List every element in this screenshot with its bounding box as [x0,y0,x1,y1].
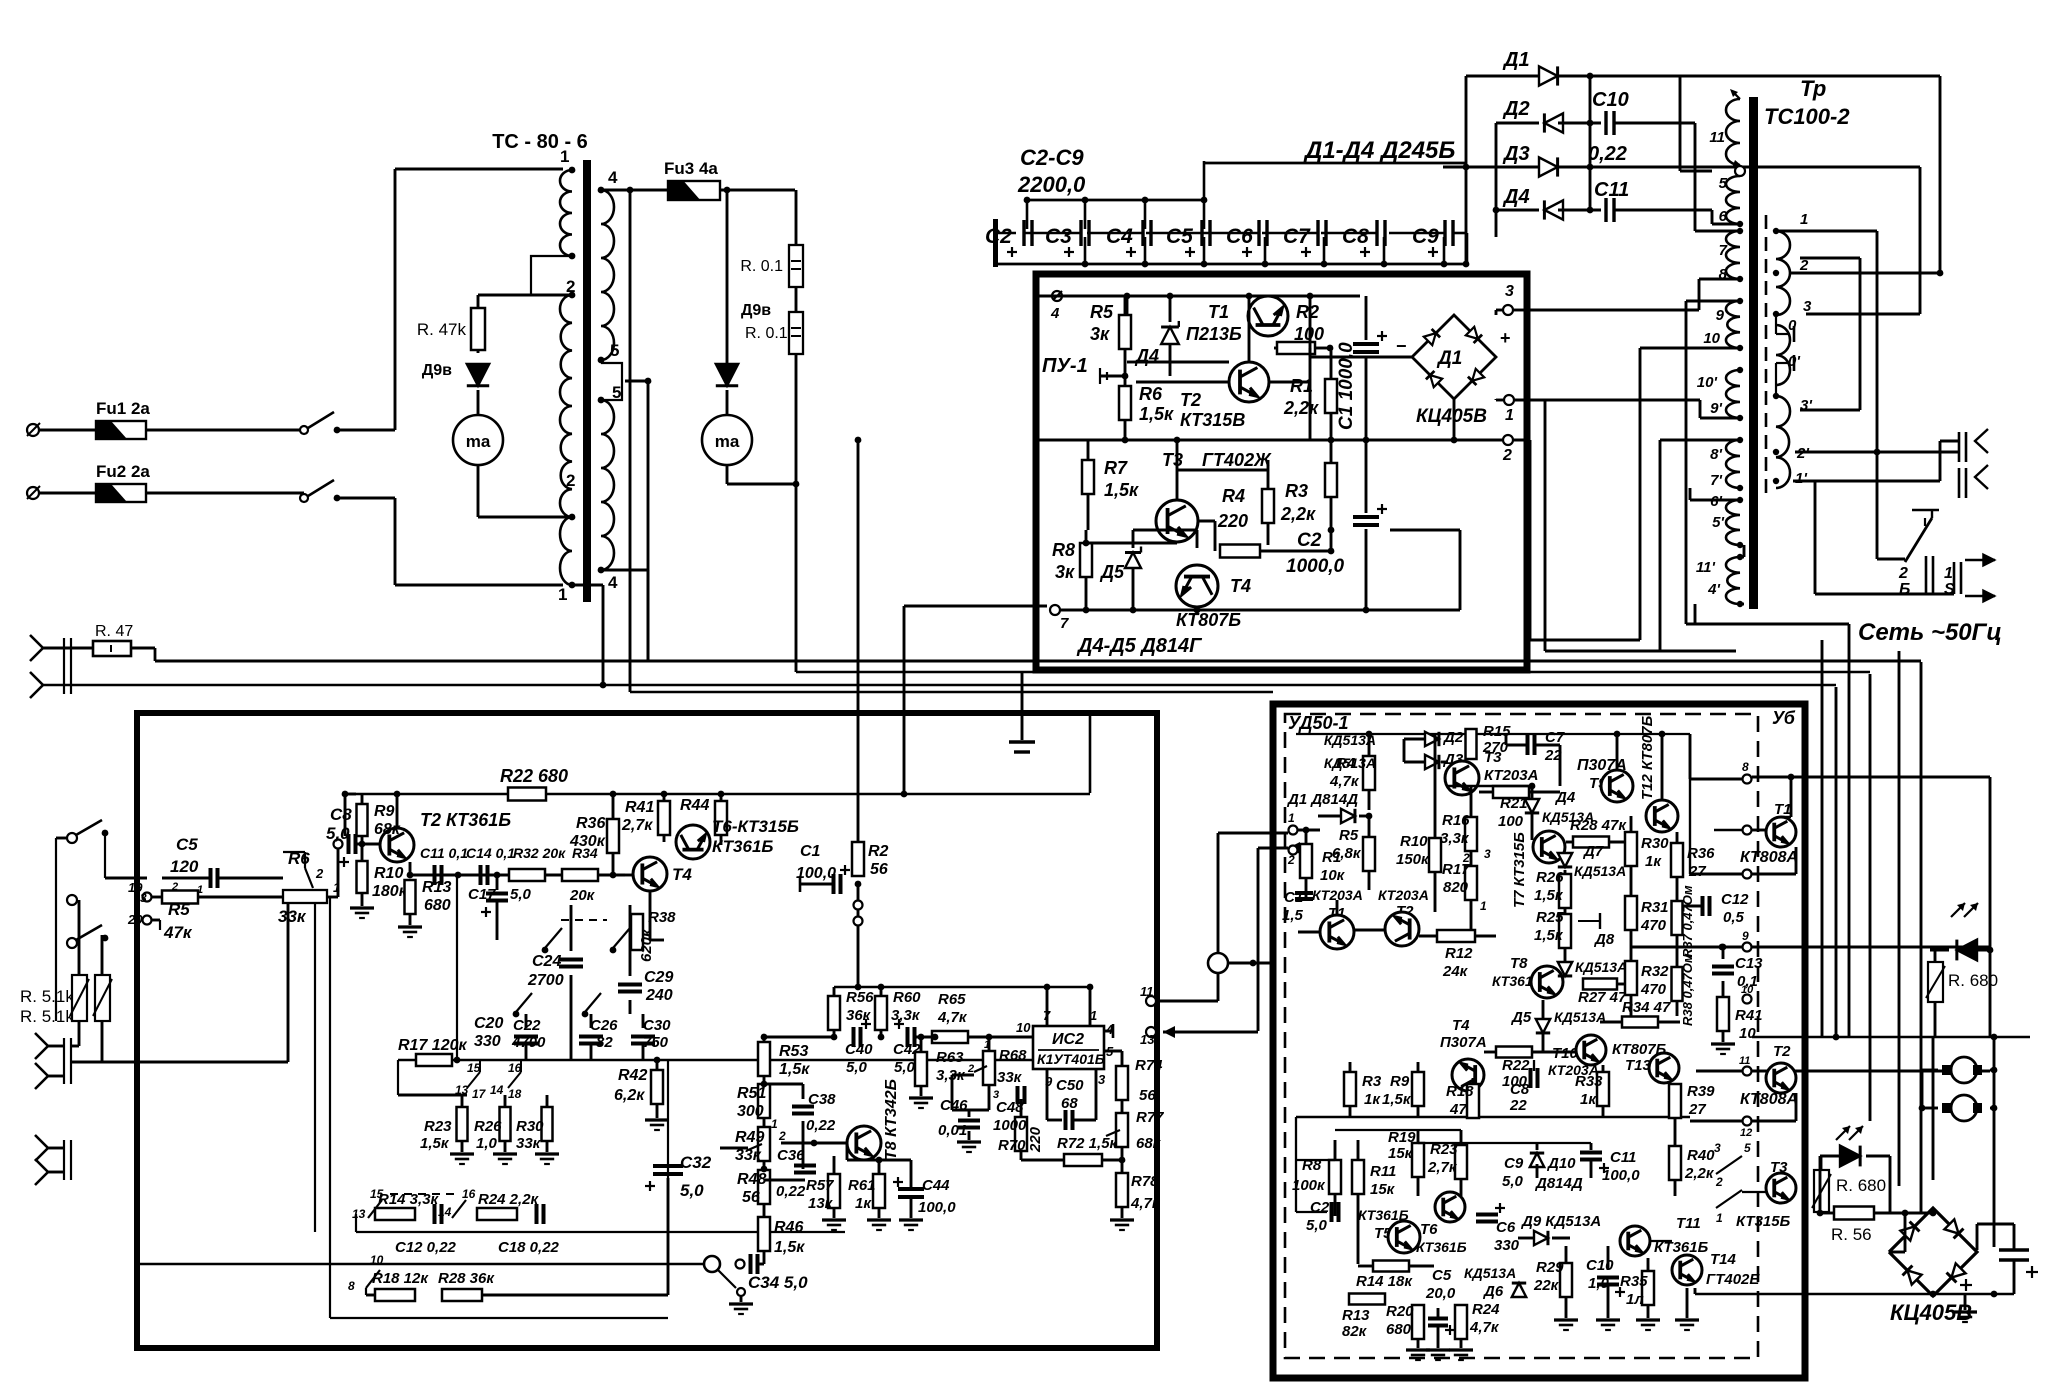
svg-text:С34 5,0: С34 5,0 [748,1273,808,1292]
svg-text:С12 0,22: С12 0,22 [395,1239,457,1256]
svg-text:1,5к: 1,5к [1382,1091,1412,1108]
svg-text:КТ808А: КТ808А [1740,849,1798,866]
svg-text:2: 2 [1799,257,1809,274]
svg-text:С8: С8 [330,805,352,824]
svg-text:17: 17 [472,1087,487,1101]
svg-text:5,0: 5,0 [846,1059,868,1076]
svg-text:10: 10 [1016,1020,1031,1035]
svg-text:4: 4 [1050,305,1060,322]
svg-text:Д6: Д6 [1482,1283,1504,1300]
svg-text:Д9в: Д9в [741,302,771,319]
svg-text:КД513А: КД513А [1554,1009,1606,1025]
svg-text:Т8 КТ342Б: Т8 КТ342Б [883,1079,900,1160]
svg-text:Д7: Д7 [1582,843,1604,860]
svg-text:С7: С7 [1283,225,1311,248]
svg-text:R53: R53 [779,1043,808,1060]
svg-text:1л: 1л [1626,1291,1644,1308]
svg-text:4: 4 [608,573,618,592]
svg-text:11: 11 [1739,1055,1750,1067]
svg-text:0: 0 [1788,317,1797,334]
svg-text:Д3: Д3 [1502,143,1530,165]
svg-text:R. 0.1: R. 0.1 [745,325,788,342]
svg-text:КТ203А: КТ203А [1484,767,1538,784]
svg-text:R28 47к: R28 47к [1570,817,1627,834]
svg-text:ma: ma [466,432,491,451]
svg-text:2,2к: 2,2к [1283,398,1319,418]
svg-text:20к: 20к [569,887,596,904]
svg-text:R63: R63 [936,1049,964,1066]
svg-text:5,0: 5,0 [1306,1217,1328,1234]
svg-text:Т4: Т4 [1230,576,1251,596]
svg-text:680: 680 [1386,1321,1412,1338]
svg-text:1к: 1к [1364,1091,1381,1108]
svg-text:Т14: Т14 [1710,1251,1737,1268]
svg-text:1,5: 1,5 [1282,907,1304,924]
svg-text:R. 0.1: R. 0.1 [740,258,783,275]
svg-text:R18: R18 [1446,1083,1474,1100]
svg-text:С1 1000,0: С1 1000,0 [1336,342,1357,430]
svg-text:1: 1 [197,884,203,896]
svg-text:33к: 33к [997,1069,1023,1086]
svg-text:47: 47 [1449,1101,1467,1118]
svg-text:ГТ402Е: ГТ402Е [1706,1271,1760,1288]
svg-text:Д2: Д2 [1442,729,1464,746]
svg-text:R30: R30 [516,1118,544,1135]
svg-text:R68: R68 [999,1047,1027,1064]
svg-text:R6: R6 [1139,384,1163,404]
svg-text:С12: С12 [1721,891,1749,908]
svg-text:С5: С5 [1166,225,1193,248]
svg-text:R7: R7 [1104,458,1128,478]
svg-text:5,0: 5,0 [680,1181,704,1200]
svg-text:Т10: Т10 [1552,1045,1579,1062]
svg-text:R1: R1 [1322,849,1341,866]
svg-text:С32: С32 [680,1153,712,1172]
svg-text:4,7к: 4,7к [1469,1319,1500,1336]
svg-text:R4: R4 [1222,486,1245,506]
svg-text:4,7к: 4,7к [937,1009,968,1026]
svg-text:12: 12 [1740,1127,1752,1139]
svg-text:R51: R51 [737,1085,766,1102]
svg-text:R3: R3 [1362,1073,1382,1090]
svg-text:КТ808А: КТ808А [1740,1091,1798,1108]
svg-text:20,0: 20,0 [1425,1285,1456,1302]
svg-text:R13: R13 [422,879,451,896]
svg-text:R25: R25 [1536,909,1564,926]
svg-text:Д9в: Д9в [422,362,452,379]
svg-text:5,0: 5,0 [326,824,350,843]
svg-text:Д1 Д814Д: Д1 Д814Д [1286,791,1358,808]
svg-text:11': 11' [1696,559,1716,576]
svg-text:4: 4 [608,168,618,187]
svg-text:9: 9 [1716,307,1725,324]
svg-text:4700: 4700 [511,1034,546,1051]
svg-text:9': 9' [1710,400,1722,417]
svg-text:820: 820 [1443,879,1469,896]
svg-text:Т8: Т8 [1510,955,1528,972]
svg-text:33к: 33к [516,1135,542,1152]
svg-text:56: 56 [1139,1087,1156,1104]
svg-text:1,5к: 1,5к [1104,480,1139,500]
svg-text:R74: R74 [1135,1057,1163,1074]
svg-text:R24 2,2к: R24 2,2к [478,1191,540,1208]
svg-text:10: 10 [1739,1025,1756,1042]
svg-text:430к: 430к [569,833,606,850]
svg-text:С14 0,1: С14 0,1 [466,845,515,861]
svg-text:3: 3 [1505,283,1514,300]
svg-text:R26: R26 [1536,869,1564,886]
svg-text:Т3: Т3 [1770,1159,1788,1176]
svg-text:5,0: 5,0 [894,1059,916,1076]
svg-text:Т6-КТ315Б: Т6-КТ315Б [712,817,799,836]
svg-text:Fu3 4a: Fu3 4a [664,159,718,178]
svg-text:Т2 КТ361Б: Т2 КТ361Б [420,810,511,830]
svg-text:1000: 1000 [993,1117,1027,1134]
svg-text:14: 14 [490,1083,504,1097]
svg-text:10: 10 [1703,330,1720,347]
svg-text:100,0: 100,0 [1602,1167,1640,1184]
svg-text:220: 220 [1217,511,1248,531]
svg-text:R17 120к: R17 120к [398,1037,467,1054]
svg-text:180к: 180к [372,883,408,900]
svg-text:Д10: Д10 [1546,1155,1576,1172]
svg-text:ГТ402Ж: ГТ402Ж [1202,450,1272,470]
svg-text:Fu1 2a: Fu1 2a [96,399,150,418]
svg-text:С11: С11 [1594,179,1629,201]
svg-text:2': 2' [1796,445,1809,462]
svg-text:2: 2 [315,866,324,881]
svg-text:ИС2: ИС2 [1052,1031,1084,1048]
svg-text:2: 2 [1715,1175,1723,1189]
svg-text:Fu2 2a: Fu2 2a [96,462,150,481]
svg-text:Д9 КД513А: Д9 КД513А [1520,1213,1601,1230]
svg-text:300: 300 [737,1103,764,1120]
svg-text:240: 240 [645,987,673,1004]
svg-text:П213Б: П213Б [1186,324,1242,344]
svg-text:ПУ-1: ПУ-1 [1042,355,1088,377]
svg-text:22к: 22к [1533,1277,1560,1294]
svg-text:С40: С40 [845,1041,873,1058]
svg-text:2: 2 [171,881,178,893]
svg-text:R33: R33 [1575,1073,1603,1090]
svg-text:С2: С2 [1310,1199,1330,1216]
svg-text:68: 68 [1061,1095,1078,1112]
svg-text:3: 3 [1098,1072,1106,1087]
svg-text:1: 1 [558,585,567,604]
svg-text:Д1-Д4 Д245Б: Д1-Д4 Д245Б [1303,137,1455,164]
svg-text:1,5к: 1,5к [779,1061,810,1078]
svg-text:R32 20к: R32 20к [513,845,566,861]
svg-text:56: 56 [742,1189,760,1206]
svg-text:R36: R36 [1687,845,1715,862]
svg-text:R13: R13 [1342,1307,1370,1324]
svg-text:150к: 150к [1396,851,1430,868]
svg-text:2,2к: 2,2к [1280,504,1316,524]
svg-text:С10: С10 [1586,1257,1614,1274]
svg-text:100,0: 100,0 [918,1199,956,1216]
svg-text:13: 13 [352,1207,366,1221]
svg-text:R14 18к: R14 18к [1356,1273,1413,1290]
svg-text:620к: 620к [638,928,655,962]
svg-text:R. 47k: R. 47k [417,320,467,339]
svg-text:33к: 33к [278,907,307,926]
svg-text:2: 2 [1462,851,1470,865]
svg-text:6,2к: 6,2к [614,1087,645,1104]
svg-text:R35: R35 [1620,1273,1648,1290]
svg-text:Т4: Т4 [1452,1017,1470,1034]
svg-text:1,5к: 1,5к [1534,887,1564,904]
svg-text:R22: R22 [1502,1057,1530,1074]
svg-text:2: 2 [566,277,575,296]
svg-text:3: 3 [1484,847,1491,861]
svg-text:0,22: 0,22 [776,1183,806,1200]
svg-text:Т3: Т3 [1162,450,1183,470]
svg-text:Д8: Д8 [1593,931,1615,948]
svg-text:R42: R42 [618,1067,647,1084]
svg-text:R19: R19 [1388,1129,1416,1146]
svg-text:R29: R29 [1536,1259,1564,1276]
svg-text:R65: R65 [938,991,966,1008]
svg-text:КД513А: КД513А [1575,959,1627,975]
svg-text:3к: 3к [1090,324,1110,344]
svg-text:R20: R20 [1386,1303,1414,1320]
svg-text:R. 5.1k: R. 5.1k [20,1007,74,1026]
svg-text:1: 1 [1505,407,1514,424]
svg-text:5: 5 [610,341,619,360]
svg-text:R16: R16 [1442,812,1470,829]
svg-text:С44: С44 [922,1177,950,1194]
svg-text:R28 36к: R28 36к [438,1270,495,1287]
svg-text:56: 56 [870,861,888,878]
svg-text:Т7 КТ315Б: Т7 КТ315Б [1511,832,1528,908]
svg-text:КД513А: КД513А [1324,732,1376,748]
svg-text:С8: С8 [1510,1081,1530,1098]
svg-text:Д814Д: Д814Д [1534,1175,1583,1192]
svg-text:6: 6 [1719,208,1728,225]
svg-text:R34 47: R34 47 [1622,999,1671,1016]
svg-text:750: 750 [643,1034,669,1051]
svg-text:R46: R46 [774,1219,803,1236]
svg-text:R12: R12 [1445,945,1473,962]
svg-text:0,5: 0,5 [1723,909,1745,926]
svg-text:2: 2 [566,471,575,490]
svg-text:8: 8 [348,1279,355,1293]
svg-text:1: 1 [1288,811,1295,825]
svg-text:7: 7 [1719,242,1728,259]
svg-text:R. 5.1k: R. 5.1k [20,987,74,1006]
svg-text:13: 13 [1140,1032,1155,1047]
svg-text:Т13: Т13 [1625,1057,1652,1074]
svg-text:2: 2 [967,1063,974,1075]
svg-text:Т1: Т1 [1774,801,1792,818]
svg-text:1к: 1к [1580,1091,1597,1108]
svg-text:Д4: Д4 [1502,186,1530,208]
svg-text:1к: 1к [855,1195,872,1212]
svg-text:С2: С2 [985,225,1012,248]
svg-text:27: 27 [1688,1101,1706,1118]
svg-text:R26: R26 [474,1118,502,1135]
svg-text:С1: С1 [800,843,821,860]
svg-text:УД50-1: УД50-1 [1288,713,1349,733]
svg-text:С11: С11 [1610,1149,1636,1166]
svg-text:Д1: Д1 [1436,348,1462,369]
svg-text:15к: 15к [1370,1181,1396,1198]
svg-text:ma: ma [715,432,740,451]
svg-text:КТ361Б: КТ361Б [1416,1239,1467,1255]
svg-text:R2: R2 [868,843,889,860]
svg-text:R48: R48 [737,1171,766,1188]
svg-text:R11: R11 [1370,1163,1396,1180]
svg-text:С5: С5 [176,835,198,854]
svg-text:7: 7 [1060,615,1069,632]
svg-text:47к: 47к [163,923,193,942]
svg-text:С29: С29 [644,969,673,986]
svg-text:9: 9 [1742,929,1749,943]
svg-text:R44: R44 [680,797,709,814]
svg-text:С7: С7 [1545,729,1565,746]
svg-text:К1УТ401Б: К1УТ401Б [1037,1051,1105,1067]
svg-text:82: 82 [596,1034,613,1051]
svg-text:100,0: 100,0 [796,865,836,882]
svg-text:330: 330 [474,1033,501,1050]
svg-text:Т12 КТ807Б: Т12 КТ807Б [1639,715,1656,800]
svg-text:R27 47: R27 47 [1578,989,1627,1006]
svg-text:4,7к: 4,7к [1130,1195,1161,1212]
svg-text:3к: 3к [1055,562,1075,582]
svg-text:4': 4' [1707,581,1720,598]
svg-text:5,0: 5,0 [510,886,532,903]
svg-text:С6: С6 [1226,225,1253,248]
svg-text:R22 680: R22 680 [500,766,568,786]
svg-text:0,01: 0,01 [938,1122,967,1139]
svg-text:470: 470 [1640,981,1667,998]
svg-text:П307А: П307А [1440,1034,1487,1051]
svg-text:R3: R3 [1285,481,1308,501]
svg-text:R21: R21 [1500,795,1528,812]
svg-text:R. 47: R. 47 [95,623,133,640]
svg-text:8: 8 [1719,266,1728,283]
svg-text:82к: 82к [1342,1323,1368,1340]
svg-text:Т11: Т11 [1676,1215,1701,1232]
svg-text:100: 100 [1498,813,1524,830]
svg-text:R2: R2 [1296,302,1319,322]
svg-text:3': 3' [1800,397,1812,414]
svg-text:R57: R57 [806,1177,834,1194]
svg-text:С46: С46 [940,1097,968,1114]
svg-text:2: 2 [1502,447,1512,464]
svg-text:Д2: Д2 [1502,98,1530,120]
svg-text:15к: 15к [1388,1145,1414,1162]
svg-text:R41: R41 [625,799,654,816]
svg-text:КТ361Б: КТ361Б [712,837,773,856]
svg-text:С10: С10 [1592,89,1629,111]
svg-text:8': 8' [1710,446,1722,463]
svg-text:R40: R40 [1687,1147,1715,1164]
svg-text:Т4: Т4 [672,865,692,884]
svg-text:R56: R56 [846,989,874,1006]
svg-text:КЦ405В: КЦ405В [1416,406,1487,427]
svg-text:3: 3 [1803,298,1812,315]
svg-text:R49: R49 [735,1129,764,1146]
svg-text:R77: R77 [1136,1109,1164,1126]
svg-text:ТС100-2: ТС100-2 [1764,104,1850,129]
svg-text:С17: С17 [468,886,496,903]
svg-text:С8: С8 [1342,225,1369,248]
svg-text:Т2: Т2 [1773,1043,1791,1060]
svg-text:С11 0,1: С11 0,1 [420,845,468,861]
svg-text:120: 120 [170,857,199,876]
svg-text:С2: С2 [1297,530,1322,551]
svg-text:ТС - 80 - 6: ТС - 80 - 6 [492,131,588,153]
svg-text:Уб: Уб [1772,708,1796,728]
svg-text:R8: R8 [1052,540,1075,560]
svg-text:R18 12к: R18 12к [372,1270,429,1287]
svg-text:3,3к: 3,3к [1440,830,1470,847]
svg-text:КД513А: КД513А [1464,1265,1516,1281]
svg-text:10': 10' [1697,374,1718,391]
svg-text:Д5: Д5 [1099,562,1125,582]
svg-text:68к: 68к [1136,1135,1162,1152]
svg-text:1,0: 1,0 [476,1135,498,1152]
svg-text:1: 1 [560,147,569,166]
svg-text:1,5к: 1,5к [774,1239,805,1256]
svg-text:С3: С3 [1045,225,1072,248]
svg-text:3: 3 [140,891,147,905]
svg-text:С5: С5 [1432,1267,1452,1284]
svg-text:R61: R61 [848,1177,876,1194]
svg-text:R23: R23 [424,1118,452,1135]
svg-text:R36: R36 [576,815,605,832]
svg-text:С1: С1 [1284,889,1303,906]
svg-text:470: 470 [1640,917,1667,934]
svg-text:КД513А: КД513А [1574,863,1626,879]
svg-text:24к: 24к [1442,963,1469,980]
svg-text:R78: R78 [1131,1173,1159,1190]
svg-text:36к: 36к [846,1007,872,1024]
svg-text:R. 56: R. 56 [1831,1225,1872,1244]
svg-text:1,5к: 1,5к [420,1135,450,1152]
svg-text:2: 2 [1287,853,1295,867]
svg-text:R38: R38 [648,909,676,926]
svg-text:R38 0,47Ом: R38 0,47Ом [1680,953,1695,1026]
svg-text:R. 680: R. 680 [1836,1176,1886,1195]
svg-text:1: 1 [1944,565,1953,582]
svg-text:С30: С30 [643,1017,671,1034]
svg-text:С38: С38 [808,1091,836,1108]
svg-text:1': 1' [1795,470,1807,487]
svg-text:КТ203А: КТ203А [1378,887,1429,903]
svg-text:1,5к: 1,5к [1534,927,1564,944]
svg-text:+: + [1500,328,1511,348]
svg-text:10к: 10к [1320,867,1346,884]
svg-text:2,2к: 2,2к [1684,1165,1715,1182]
svg-text:5,0: 5,0 [1502,1173,1524,1190]
svg-text:2,7к: 2,7к [1427,1159,1458,1176]
svg-text:2,7к: 2,7к [621,817,653,834]
svg-text:1: 1 [1480,899,1487,913]
svg-text:R14 3,3к: R14 3,3к [378,1191,440,1208]
svg-text:5: 5 [1744,1141,1751,1155]
svg-text:Тр: Тр [1800,76,1826,101]
svg-text:R24: R24 [1472,1301,1500,1318]
svg-text:10: 10 [1741,984,1754,996]
svg-text:R60: R60 [893,989,921,1006]
svg-text:С50: С50 [1056,1077,1084,1094]
svg-text:7': 7' [1710,472,1722,489]
svg-text:6': 6' [1710,493,1722,510]
svg-text:2: 2 [778,1129,786,1143]
svg-text:1000,0: 1000,0 [1286,556,1345,577]
